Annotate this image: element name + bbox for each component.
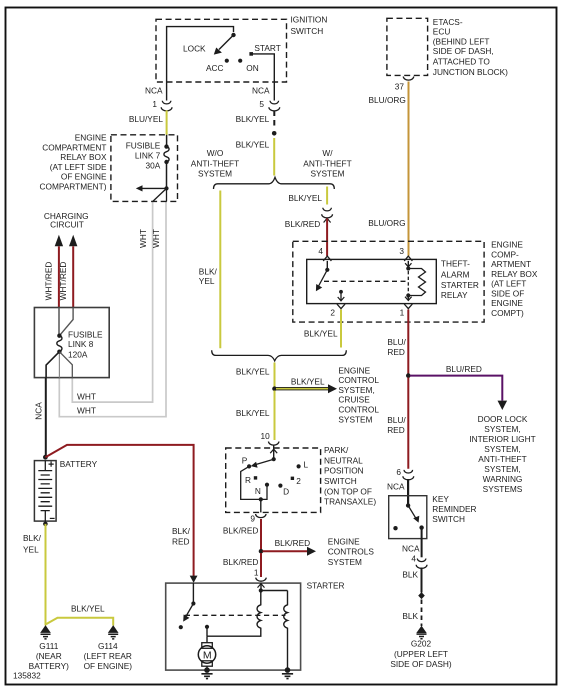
svg-text:30A: 30A <box>146 160 161 170</box>
contact dot L <box>297 464 301 468</box>
svg-text:COMPARTMENT: COMPARTMENT <box>42 142 106 152</box>
starter pin 1 node <box>259 588 263 592</box>
svg-text:BLK/: BLK/ <box>172 526 191 536</box>
svg-text:(AT LEFT: (AT LEFT <box>491 279 526 289</box>
wire BLK segment below pin 5 <box>273 111 275 128</box>
arrow into starter <box>190 576 198 583</box>
wire NCA battery positive <box>45 378 47 458</box>
wire BLK/YEL branch to engine control system <box>276 387 328 390</box>
wire P to N common <box>241 466 267 499</box>
svg-text:CRUISE: CRUISE <box>338 395 370 405</box>
svg-text:CONTROL: CONTROL <box>338 405 379 415</box>
wire from START contact to pin 5 <box>253 54 274 101</box>
svg-text:WARNING: WARNING <box>483 474 523 484</box>
svg-text:BLK/YEL: BLK/YEL <box>236 367 270 377</box>
svg-text:CONTROLS: CONTROLS <box>328 547 375 557</box>
wire BLK/RED battery to starter <box>45 445 193 577</box>
fusible link 8 element <box>57 334 61 338</box>
svg-text:ARTMENT: ARTMENT <box>491 259 531 269</box>
battery internal bottom lead <box>44 511 46 524</box>
ground motor <box>201 668 212 679</box>
svg-text:WHT: WHT <box>77 392 96 402</box>
svg-text:N: N <box>255 486 261 496</box>
hold-in winding coil <box>284 591 288 671</box>
wire WHT/RED right <box>72 246 74 307</box>
relay mechanical dashed link <box>324 280 406 282</box>
open arrow up on BLK/RED wire <box>324 218 331 222</box>
junction node BLU/RED <box>406 373 411 378</box>
svg-text:INTERIOR LIGHT: INTERIOR LIGHT <box>469 434 535 444</box>
starter solenoid switch feed <box>192 583 194 603</box>
svg-text:2: 2 <box>330 308 335 318</box>
brace splitting BLK/YEL wire <box>214 177 335 189</box>
svg-text:SIDE OF: SIDE OF <box>491 288 524 298</box>
svg-text:BLK: BLK <box>402 611 418 621</box>
svg-text:NCA: NCA <box>252 86 270 96</box>
svg-text:BLU/: BLU/ <box>387 415 406 425</box>
svg-text:2: 2 <box>296 476 301 486</box>
svg-text:FUSIBLE: FUSIBLE <box>126 140 161 150</box>
svg-text:SYSTEM,: SYSTEM, <box>484 444 520 454</box>
park switch pivot dot <box>272 457 276 461</box>
contact square 2 <box>291 477 294 480</box>
svg-text:P: P <box>242 455 248 465</box>
wire BLU/YEL pin1 to fusible link 7 <box>166 110 168 135</box>
svg-text:ETACS-: ETACS- <box>433 17 463 27</box>
wire NCA out of key switch <box>421 528 423 558</box>
svg-text:SYSTEMS: SYSTEMS <box>483 484 523 494</box>
starter switch contact dot <box>179 625 183 629</box>
svg-text:ANTI-THEFT: ANTI-THEFT <box>191 158 239 168</box>
svg-text:SYSTEM: SYSTEM <box>328 557 362 567</box>
svg-text:ENGINE: ENGINE <box>338 365 370 375</box>
connector pin 6 <box>403 470 414 480</box>
engine compartment relay box (dashed) <box>111 135 178 202</box>
junction node in relay box <box>164 186 168 190</box>
svg-text:5: 5 <box>259 99 264 109</box>
motor M <box>198 646 215 663</box>
svg-text:NEUTRAL: NEUTRAL <box>324 455 363 465</box>
svg-text:4: 4 <box>318 246 323 256</box>
svg-text:SYSTEM,: SYSTEM, <box>484 464 520 474</box>
svg-text:4: 4 <box>411 554 416 564</box>
svg-text:YEL: YEL <box>23 545 39 555</box>
svg-text:BLU/RED: BLU/RED <box>446 364 482 374</box>
fusible link 8 box <box>34 308 109 378</box>
svg-text:BLK/RED: BLK/RED <box>223 557 259 567</box>
svg-text:ACC: ACC <box>206 63 224 73</box>
junction node BLK/RED <box>259 549 264 554</box>
svg-text:6: 6 <box>396 467 401 477</box>
wire to motor <box>206 636 208 643</box>
connector pin 10 <box>269 442 279 446</box>
svg-text:NCA: NCA <box>34 402 44 420</box>
motor M brushes <box>202 643 213 649</box>
wire BLK/YEL merged down <box>274 363 276 388</box>
ignition lever pivot dot <box>231 33 235 37</box>
contact dot ACC <box>225 59 229 63</box>
battery negative junction <box>43 522 48 527</box>
fusible link 8 right feed diagonal <box>59 308 73 336</box>
wire BLK dashed <box>421 600 423 627</box>
svg-text:SWITCH: SWITCH <box>291 26 324 36</box>
wire BLK/YEL branch to G114 <box>46 618 114 626</box>
svg-text:1: 1 <box>254 568 259 578</box>
battery plus sign <box>49 462 54 467</box>
svg-text:(UPPER LEFT: (UPPER LEFT <box>394 649 448 659</box>
ETACS ECU box <box>387 18 428 75</box>
vertical link to WHT wire <box>166 188 168 201</box>
wire BLK/RED down to theft relay pin 4 <box>326 218 328 256</box>
park switch blade to P <box>256 459 274 464</box>
svg-text:PARK/: PARK/ <box>324 445 349 455</box>
svg-text:SIDE OF DASH,: SIDE OF DASH, <box>433 46 494 56</box>
pin 2 open arrow down <box>338 297 345 301</box>
contact dot D <box>278 484 282 488</box>
svg-text:WHT: WHT <box>138 229 148 248</box>
svg-text:REMINDER: REMINDER <box>432 504 476 514</box>
wire BLK/RED pin 9 down <box>260 519 262 550</box>
relay coil zigzag <box>408 269 425 296</box>
svg-text:BLK/YEL: BLK/YEL <box>71 604 105 614</box>
svg-text:RELAY BOX: RELAY BOX <box>60 152 107 162</box>
svg-text:SYSTEM,: SYSTEM, <box>484 424 520 434</box>
svg-text:(ON TOP OF: (ON TOP OF <box>324 486 372 496</box>
svg-text:ECU: ECU <box>433 27 451 37</box>
svg-text:RED: RED <box>387 347 405 357</box>
arrow to engine controls system <box>307 547 316 556</box>
pin 1 open arrow down <box>405 297 412 301</box>
svg-text:BLU/ORG: BLU/ORG <box>369 95 406 105</box>
svg-text:RED: RED <box>387 425 405 435</box>
svg-text:L: L <box>303 460 308 470</box>
svg-text:CONTROL: CONTROL <box>338 375 379 385</box>
svg-text:BLK/YEL: BLK/YEL <box>236 140 270 150</box>
svg-text:WHT/RED: WHT/RED <box>44 262 54 301</box>
fuse output diagonal to WHT wire <box>59 352 72 378</box>
svg-text:SWITCH: SWITCH <box>324 476 357 486</box>
wire BLK/YEL from pin 2 down to brace <box>340 310 342 348</box>
connector pin 37 <box>403 77 413 81</box>
svg-text:NCA: NCA <box>387 481 405 491</box>
arrow to door lock systems <box>498 401 508 410</box>
svg-text:LOCK: LOCK <box>183 44 206 54</box>
svg-text:ATTACHED TO: ATTACHED TO <box>433 57 491 67</box>
svg-text:SYSTEM: SYSTEM <box>198 169 232 179</box>
fuse output vertical to WHT wire <box>58 354 60 378</box>
svg-text:SYSTEM: SYSTEM <box>338 414 372 424</box>
pin 10 entry wire with open arrow <box>273 445 275 460</box>
svg-text:(LEFT REAR: (LEFT REAR <box>84 651 132 661</box>
battery minus sign <box>50 517 55 519</box>
arrow to charging circuit (right) <box>69 235 77 247</box>
wire BLK/YEL down to park/neutral switch <box>274 391 276 441</box>
svg-text:(NEAR: (NEAR <box>36 651 62 661</box>
wire fuse to junction <box>166 162 168 188</box>
svg-text:JUNCTION BLOCK): JUNCTION BLOCK) <box>433 67 508 77</box>
fusible link 7 element <box>164 144 168 148</box>
connector pin 5 <box>269 101 280 111</box>
svg-text:135832: 135832 <box>13 671 41 681</box>
ground G202 <box>417 627 427 639</box>
wire NCA into key reminder switch <box>407 479 409 506</box>
svg-text:BLK/YEL: BLK/YEL <box>304 329 338 339</box>
svg-text:YEL: YEL <box>199 276 215 286</box>
relay coil bottom dot <box>406 293 410 297</box>
battery positive junction <box>43 455 48 460</box>
svg-text:BLU/ORG: BLU/ORG <box>368 218 405 228</box>
svg-text:WHT: WHT <box>77 406 96 416</box>
motor ground wire <box>206 666 208 670</box>
svg-text:COMPT): COMPT) <box>491 308 524 318</box>
wire BLK/YEL left branch (W/O) <box>219 191 221 349</box>
wire BLU/RED branch to door lock systems <box>410 376 502 401</box>
pin 2 stub with contact dot <box>339 290 343 294</box>
svg-text:BLK/YEL: BLK/YEL <box>236 408 270 418</box>
junction dot pin 5 wire <box>272 131 277 136</box>
wire BLK/YEL battery to G111 <box>45 524 47 626</box>
svg-text:ON: ON <box>246 63 258 73</box>
contact dot N <box>265 483 269 487</box>
svg-text:1: 1 <box>152 99 157 109</box>
wire BLK/RED down to starter pin 1 <box>260 553 262 577</box>
svg-text:LINK 8: LINK 8 <box>68 339 94 349</box>
svg-text:BLK/: BLK/ <box>23 533 42 543</box>
relay armature dashed vertical <box>407 271 409 294</box>
svg-text:120A: 120A <box>68 349 88 359</box>
svg-text:IGNITION: IGNITION <box>291 15 328 25</box>
arrow to charging circuit (left) <box>55 235 63 247</box>
svg-text:RED: RED <box>172 537 190 547</box>
svg-text:ENGINE: ENGINE <box>75 133 107 143</box>
wire BLK/YEL down to W-brace <box>273 138 275 176</box>
starter box <box>166 583 301 670</box>
ignition switch box <box>156 19 287 82</box>
svg-text:BLU/: BLU/ <box>387 337 406 347</box>
svg-text:BATTERY): BATTERY) <box>29 661 69 671</box>
relay coil top dot <box>407 261 409 269</box>
svg-text:NCA: NCA <box>145 86 163 96</box>
svg-text:POSITION: POSITION <box>324 466 364 476</box>
diagonal link to WHT wire <box>153 188 167 201</box>
connector key pin 4 <box>416 559 427 569</box>
wire BLU/RED down to key reminder switch <box>407 378 409 469</box>
wire BLK solid <box>421 568 423 593</box>
wire into fusible link 7 <box>166 135 168 147</box>
wire WHT/RED left <box>58 246 60 307</box>
starter mechanical dashed link <box>185 614 286 616</box>
pin 2 chevron <box>337 304 345 309</box>
relay switch blade <box>319 270 328 286</box>
svg-text:BLK/RED: BLK/RED <box>223 525 259 535</box>
brace merging BLK/YEL wires <box>212 350 347 361</box>
wire WHT from fusible link 8 to relay box (inner loop) <box>72 201 152 402</box>
svg-text:RELAY BOX: RELAY BOX <box>491 269 538 279</box>
wire BLU/RED from pin 1 down <box>407 310 409 376</box>
svg-text:START: START <box>254 43 280 53</box>
svg-text:BLU/YEL: BLU/YEL <box>129 114 164 124</box>
svg-text:COMP-: COMP- <box>491 249 519 259</box>
pin 3 chevron <box>404 256 412 261</box>
pin 1 chevron <box>404 304 412 309</box>
svg-text:COMPARTMENT): COMPARTMENT) <box>40 181 107 191</box>
svg-text:ENGINE: ENGINE <box>491 240 523 250</box>
svg-text:(AT LEFT SIDE: (AT LEFT SIDE <box>50 162 107 172</box>
svg-text:WHT: WHT <box>151 229 161 248</box>
svg-text:THEFT-: THEFT- <box>441 259 470 269</box>
pin 4 chevron <box>323 256 331 261</box>
svg-text:9: 9 <box>250 513 255 523</box>
ground hold-in winding <box>282 668 293 679</box>
connector pin 1 <box>161 101 172 111</box>
svg-text:BLK/RED: BLK/RED <box>275 538 311 548</box>
starter pin 1 open arrow <box>258 584 265 588</box>
svg-text:BLK/YEL: BLK/YEL <box>288 193 322 203</box>
svg-text:FUSIBLE: FUSIBLE <box>68 329 103 339</box>
wire WHT from fusible link 8 to relay box (outer loop) <box>59 201 166 417</box>
arrow feed to other circuits <box>141 187 167 189</box>
svg-text:G111: G111 <box>39 641 58 651</box>
svg-text:CIRCUIT: CIRCUIT <box>50 220 84 230</box>
svg-text:W/: W/ <box>322 148 333 158</box>
battery plates <box>38 471 52 511</box>
ground G114 <box>108 626 118 639</box>
svg-text:G202: G202 <box>411 639 432 649</box>
pull-in winding coil <box>207 591 261 637</box>
park/neutral position switch box <box>226 448 321 512</box>
solenoid moving contact <box>206 629 208 637</box>
contact dot ON <box>238 59 242 63</box>
wire ignition pin 1 internal <box>167 27 234 101</box>
svg-text:STARTER: STARTER <box>441 280 479 290</box>
theft-alarm starter relay inner box <box>307 259 437 303</box>
wire BLU/ORG from ETACS to theft relay pin 3 <box>408 82 410 256</box>
relay switch contact dot <box>326 261 328 270</box>
contact dot P <box>247 464 251 468</box>
starter solenoid switch blade <box>186 604 194 617</box>
key reminder switch box <box>389 496 427 539</box>
wire BLK/RED branch to engine controls <box>263 550 308 552</box>
ground G111 <box>41 626 51 639</box>
connector pin 9 <box>256 514 266 518</box>
svg-text:RELAY: RELAY <box>441 290 468 300</box>
wire BLK/YEL right branch (W/) <box>326 187 328 205</box>
connector BLK/YEL to BLK/RED <box>322 208 333 218</box>
engine compartment relay box 2 (dashed, theft relay) <box>293 241 484 322</box>
contact square R <box>254 476 257 479</box>
fuse output diagonal to battery wire <box>46 352 59 378</box>
svg-text:SYSTEM,: SYSTEM, <box>338 385 374 395</box>
svg-text:BATTERY: BATTERY <box>60 459 98 469</box>
svg-text:1: 1 <box>400 308 405 318</box>
svg-text:ALARM: ALARM <box>441 270 470 280</box>
key switch open contact dot <box>393 526 397 530</box>
key switch blade <box>408 506 416 519</box>
svg-text:G114: G114 <box>98 641 118 651</box>
key switch contact dot <box>419 525 423 529</box>
svg-text:R: R <box>245 475 251 485</box>
svg-text:BLK/YEL: BLK/YEL <box>291 376 325 386</box>
svg-text:ENGINE: ENGINE <box>491 298 523 308</box>
svg-text:(BEHIND LEFT: (BEHIND LEFT <box>433 36 490 46</box>
svg-text:SWITCH: SWITCH <box>432 514 465 524</box>
svg-text:W/O: W/O <box>207 148 224 158</box>
svg-text:ANTI-THEFT: ANTI-THEFT <box>478 454 526 464</box>
key switch pivot dot <box>406 503 410 507</box>
svg-text:37: 37 <box>395 82 405 92</box>
junction to pin 9 <box>259 497 263 501</box>
arrow to engine control system <box>328 384 337 393</box>
svg-text:NCA: NCA <box>402 543 420 553</box>
connector starter pin 1 <box>256 578 266 582</box>
svg-text:TRANSAXLE): TRANSAXLE) <box>324 497 376 507</box>
contact square START <box>249 52 253 56</box>
junction node BLK/YEL <box>272 386 277 391</box>
svg-text:SIDE OF DASH): SIDE OF DASH) <box>390 659 452 669</box>
svg-text:BLK/RED: BLK/RED <box>285 219 321 229</box>
svg-text:ENGINE: ENGINE <box>328 537 360 547</box>
battery box <box>34 461 56 521</box>
svg-text:WHT/RED: WHT/RED <box>58 262 68 301</box>
svg-text:M: M <box>203 649 212 661</box>
svg-text:OF ENGINE): OF ENGINE) <box>84 661 133 671</box>
svg-text:STARTER: STARTER <box>307 581 345 591</box>
ignition lever (switch blade) <box>219 35 234 50</box>
svg-text:ANTI-THEFT: ANTI-THEFT <box>303 158 351 168</box>
wire to hold-in winding <box>261 590 288 592</box>
svg-text:SYSTEM: SYSTEM <box>310 169 344 179</box>
splice diamond <box>418 592 425 599</box>
svg-text:LINK 7: LINK 7 <box>135 151 161 161</box>
svg-text:BLK: BLK <box>402 570 418 580</box>
svg-text:D: D <box>283 487 289 497</box>
svg-text:10: 10 <box>260 431 270 441</box>
svg-text:OF ENGINE: OF ENGINE <box>61 172 107 182</box>
fusible link 8 feed wire <box>58 308 60 336</box>
battery internal top lead <box>44 461 46 471</box>
svg-text:BLK/: BLK/ <box>199 267 218 277</box>
svg-text:KEY: KEY <box>432 494 449 504</box>
svg-text:3: 3 <box>399 246 404 256</box>
svg-text:BLK/YEL: BLK/YEL <box>236 114 270 124</box>
svg-text:DOOR LOCK: DOOR LOCK <box>478 414 528 424</box>
